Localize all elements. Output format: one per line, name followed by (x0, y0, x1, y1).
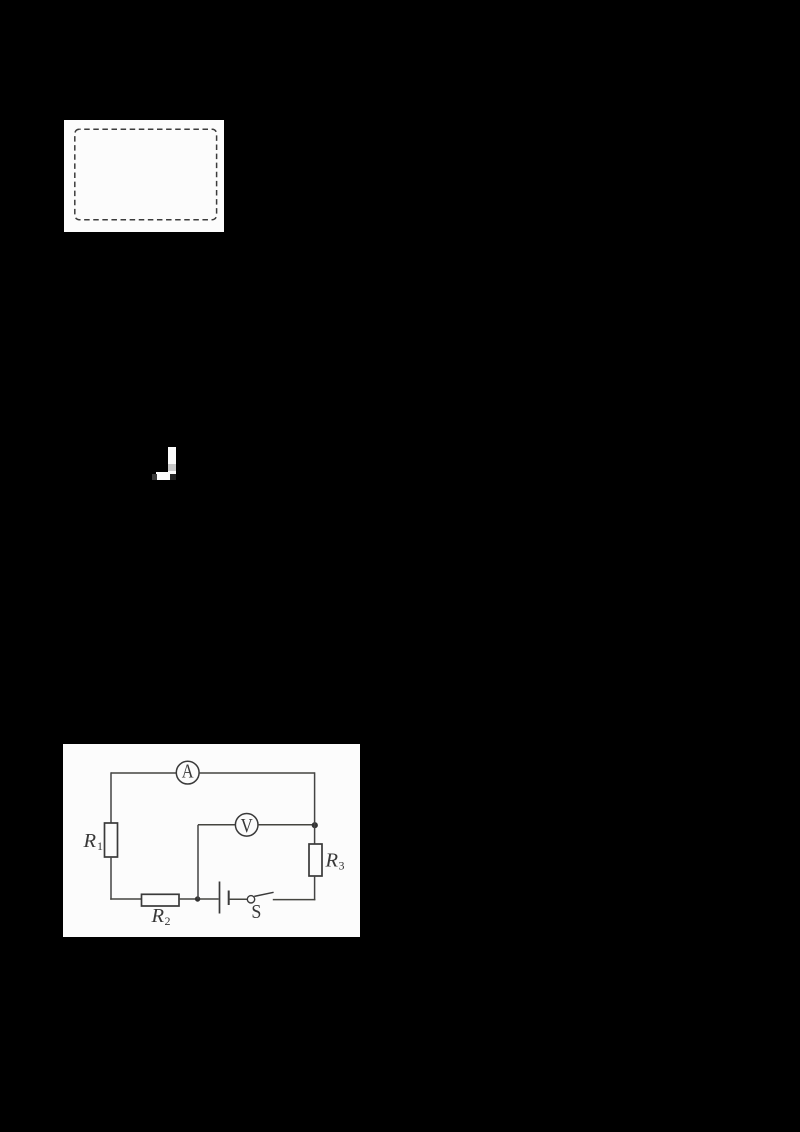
battery short plate (228, 891, 230, 906)
junction node dot left (195, 896, 200, 901)
wire: right vertical lower (314, 876, 316, 900)
junction node dot right (312, 822, 318, 828)
wire: right vertical upper (314, 772, 316, 844)
svg-text:S: S (251, 901, 261, 923)
svg-text:V: V (241, 815, 253, 836)
wire: voltmeter right segment (258, 824, 315, 826)
resistor R2 box (142, 894, 180, 906)
wire: battery to switch (229, 898, 248, 900)
wire: middle vertical (voltmeter branch) (197, 825, 199, 899)
svg-text:R1: R1 (83, 830, 104, 853)
wire: bottom right segment (273, 899, 316, 901)
wire: top left segment (111, 772, 176, 774)
wire: voltmeter left segment (198, 824, 235, 826)
wire: left vertical upper (110, 772, 112, 823)
small white J-shaped mark (168, 447, 176, 473)
resistor R1 box (105, 823, 118, 857)
voltmeter V1 circle (235, 814, 258, 837)
wire: left vertical lower (110, 857, 112, 900)
circuit diagram white panel (63, 744, 360, 937)
switch S lever (254, 892, 273, 896)
ammeter A1 circle (176, 761, 199, 784)
dashed answer box border (75, 129, 217, 219)
wire: bottom segment R2 to battery (179, 898, 219, 900)
wire: top right segment (199, 772, 314, 774)
svg-text:R2: R2 (151, 905, 171, 928)
answer box white panel (64, 120, 224, 232)
resistor R3 box (309, 844, 322, 876)
wire: bottom left segment (110, 898, 142, 900)
svg-text:R3: R3 (325, 849, 345, 872)
switch S pivot circle (247, 896, 254, 903)
battery long plate (219, 882, 221, 914)
svg-text:A: A (182, 760, 194, 782)
